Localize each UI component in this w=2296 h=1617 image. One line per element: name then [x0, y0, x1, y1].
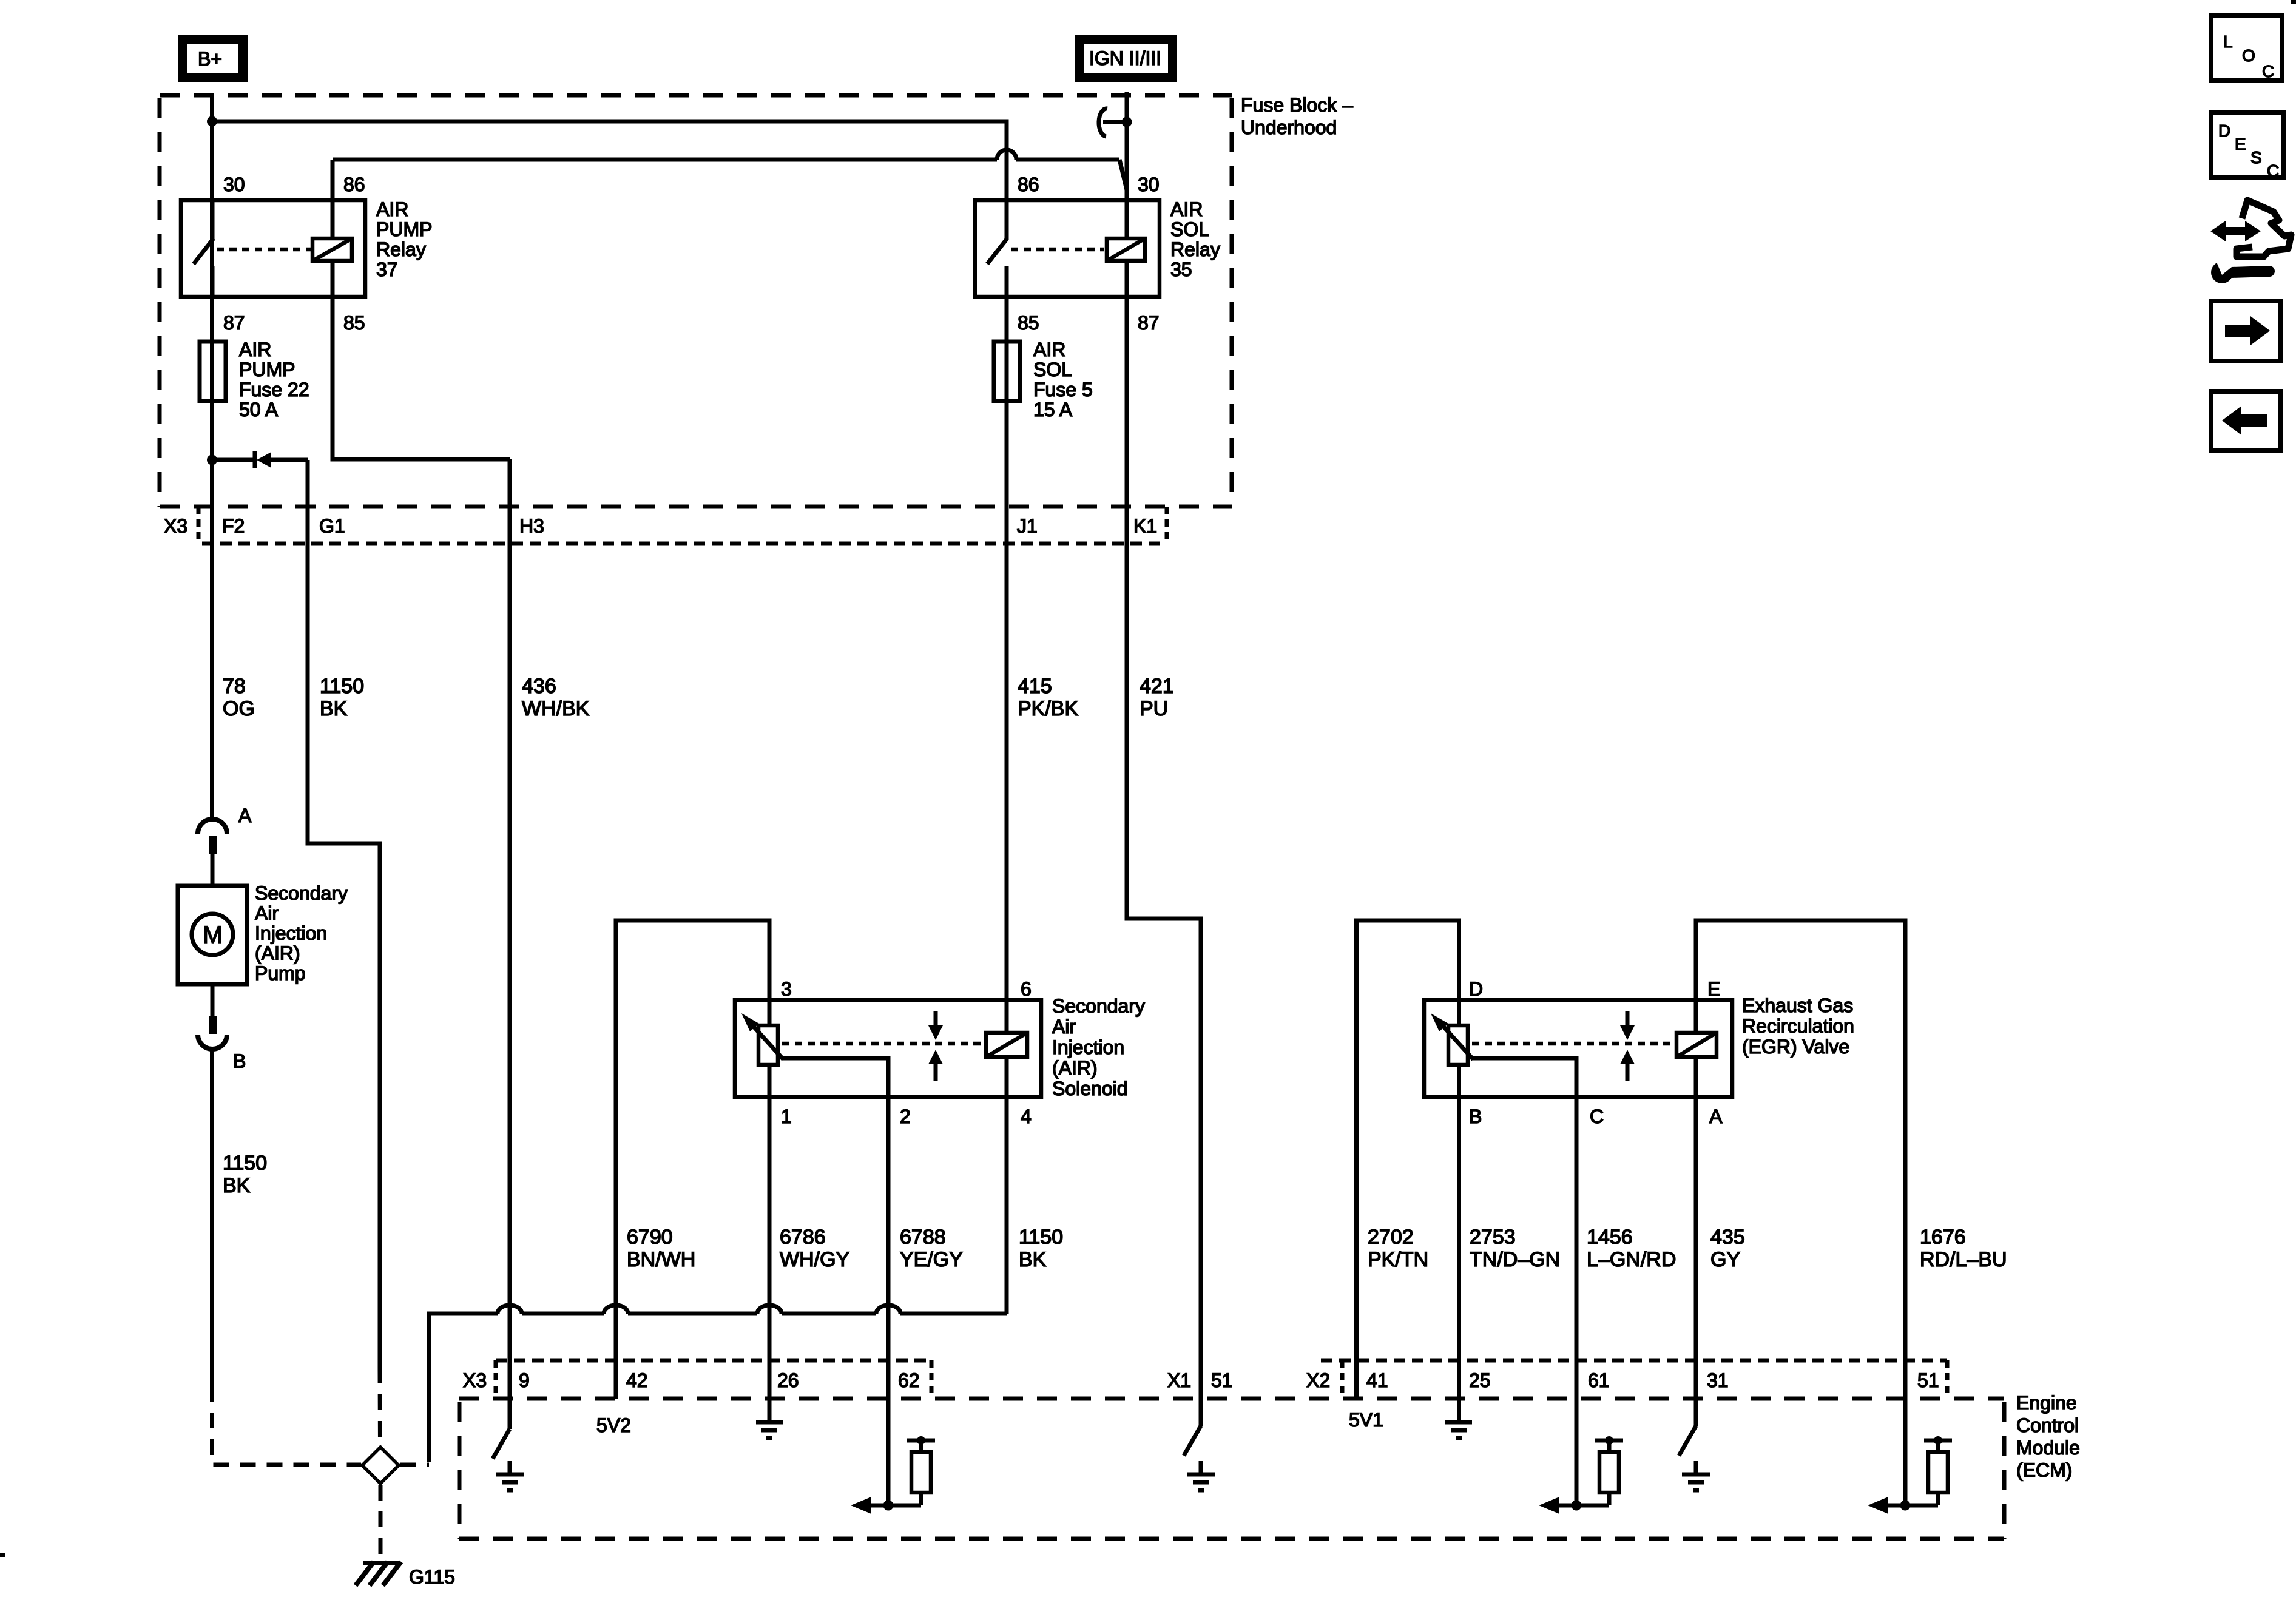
wire label 421 PU: [1140, 675, 1174, 720]
svg-text:30: 30: [1138, 174, 1160, 195]
svg-text:X3: X3: [164, 515, 187, 537]
svg-text:42: 42: [626, 1369, 648, 1391]
svg-text:415: 415: [1018, 675, 1052, 698]
svg-text:Pump: Pump: [255, 962, 306, 984]
svg-text:S: S: [2250, 148, 2262, 167]
svg-text:51: 51: [1917, 1369, 1939, 1391]
wire dashed run to splice from pump: [212, 1386, 362, 1465]
svg-text:5V2: 5V2: [596, 1414, 631, 1436]
svg-text:H3: H3: [519, 515, 544, 537]
svg-text:1456: 1456: [1587, 1226, 1633, 1249]
svg-text:(EGR) Valve: (EGR) Valve: [1742, 1036, 1849, 1058]
svg-text:6786: 6786: [780, 1226, 826, 1249]
svg-text:62: 62: [898, 1369, 920, 1391]
ECM connector row X3 dotted: [496, 1360, 931, 1396]
svg-text:B: B: [1469, 1106, 1482, 1127]
Fuse Block - Underhood dashed enclosure: [160, 95, 1232, 507]
svg-text:J1: J1: [1017, 515, 1038, 537]
diode D1 with feed to G1: [212, 451, 308, 468]
svg-text:85: 85: [1018, 312, 1039, 334]
junction dot below fuse 22: [207, 455, 217, 465]
wire solenoid wiper to pin 2: [782, 1058, 888, 1097]
svg-text:PU: PU: [1140, 697, 1168, 720]
EGR valve box Exhaust Gas Recirculation (EGR) Valve: [1424, 1000, 1732, 1097]
ECM pin 61 internal pull-up resistor and measure arrow: [1539, 1436, 1623, 1514]
icon LOC box: [2211, 16, 2282, 81]
svg-text:Secondary: Secondary: [1052, 995, 1145, 1017]
svg-text:BN/WH: BN/WH: [627, 1248, 695, 1271]
svg-text:Air: Air: [1052, 1016, 1076, 1038]
svg-text:E: E: [2235, 135, 2246, 154]
svg-text:BK: BK: [223, 1174, 251, 1197]
icon DESC box: [2211, 112, 2283, 180]
node B+ (battery feed terminal box): [183, 40, 243, 78]
svg-text:Relay: Relay: [1170, 238, 1220, 260]
wire 1150 BK pump ground lead: [210, 1049, 214, 1386]
svg-text:Fuse 22: Fuse 22: [239, 379, 309, 400]
svg-text:5V1: 5V1: [1349, 1409, 1383, 1431]
relay37 coil: [312, 238, 352, 261]
svg-text:37: 37: [376, 258, 398, 280]
wire solenoid pin 4 drop: [1005, 1057, 1009, 1314]
svg-text:2753: 2753: [1470, 1226, 1516, 1249]
wire 1150 BK from diode down through G1: [308, 460, 380, 1368]
wire solenoid pin 3 loop to ECM 42: [616, 920, 769, 1399]
wire EGR pin A to ECM 31: [1694, 1097, 1698, 1426]
svg-text:AIR: AIR: [376, 198, 408, 220]
svg-text:Air: Air: [255, 902, 279, 924]
svg-text:Fuse Block –: Fuse Block –: [1241, 94, 1353, 116]
wire label 1150 BK: [320, 675, 364, 720]
svg-text:Recirculation: Recirculation: [1742, 1015, 1854, 1037]
relay35 armature dashed link: [1011, 248, 1104, 252]
svg-text:WH/BK: WH/BK: [522, 697, 590, 720]
wire label 1150 BK (solenoid): [1019, 1226, 1063, 1271]
svg-text:Injection: Injection: [255, 922, 327, 944]
svg-text:D: D: [1469, 978, 1483, 1000]
relay K37 AIR PUMP Relay box: [181, 200, 365, 297]
wire EGR pin E loop to ECM 51: [1696, 920, 1905, 1505]
svg-text:436: 436: [522, 675, 556, 698]
EGR coil: [1676, 1033, 1717, 1057]
label Fuse Block - Underhood: [1241, 94, 1353, 138]
ECM X1-51 internal ground: [1187, 1461, 1215, 1490]
svg-text:50 A: 50 A: [239, 399, 279, 420]
svg-text:PUMP: PUMP: [376, 218, 432, 240]
svg-text:X1: X1: [1167, 1369, 1191, 1391]
label AIR PUMP Relay 37: [376, 198, 432, 280]
svg-text:(AIR): (AIR): [255, 942, 300, 964]
svg-text:30: 30: [223, 174, 245, 195]
ECM pin 62 internal pull-up resistor and measure arrow: [851, 1436, 935, 1514]
wire EGR wiper to pin C: [1472, 1058, 1576, 1097]
ECM pin 31 low-side switch: [1679, 1426, 1696, 1456]
icon forward arrow box: [2211, 301, 2281, 361]
svg-text:1: 1: [781, 1106, 792, 1127]
svg-text:Module: Module: [2016, 1437, 2080, 1459]
relay35 pin 85 internal stub: [1005, 266, 1009, 297]
svg-text:Engine: Engine: [2016, 1392, 2077, 1414]
svg-text:YE/GY: YE/GY: [900, 1248, 963, 1271]
svg-text:31: 31: [1707, 1369, 1729, 1391]
wire label 1676 RD/L-BU: [1920, 1226, 2007, 1271]
svg-text:86: 86: [1018, 174, 1039, 195]
relay37 pin 30 internal lead: [211, 200, 215, 240]
solenoid dashed actuator link: [782, 1042, 982, 1046]
wire label 1150 BK (pump ground): [223, 1152, 267, 1197]
ECM connector row X2 dotted: [1321, 1360, 1947, 1396]
svg-text:C: C: [2262, 62, 2274, 81]
wire label 6790 BN/WH: [627, 1226, 695, 1271]
svg-text:4: 4: [1021, 1106, 1032, 1127]
svg-text:9: 9: [519, 1369, 530, 1391]
fuse F22 AIR PUMP Fuse 22 50 A: [200, 342, 226, 401]
svg-text:D: D: [2218, 121, 2230, 140]
svg-text:PK/BK: PK/BK: [1018, 697, 1078, 720]
svg-text:A: A: [238, 805, 252, 826]
svg-text:3: 3: [781, 978, 792, 1000]
svg-text:1150: 1150: [320, 675, 364, 698]
relay35 coil: [1107, 238, 1145, 261]
EGR sensor wiper arrow: [1431, 1013, 1473, 1059]
svg-text:6790: 6790: [627, 1226, 673, 1249]
svg-text:6: 6: [1021, 978, 1032, 1000]
label AIR PUMP Fuse 22 50 A: [239, 339, 309, 420]
svg-text:61: 61: [1588, 1369, 1610, 1391]
svg-text:BK: BK: [320, 697, 348, 720]
svg-text:O: O: [2242, 46, 2255, 65]
svg-text:F2: F2: [222, 515, 245, 537]
icon back arrow box: [2211, 391, 2281, 451]
svg-text:L–GN/RD: L–GN/RD: [1587, 1248, 1676, 1271]
relay35 switch armature: [987, 238, 1007, 264]
ECM pin 9 internal ground: [496, 1461, 524, 1490]
solenoid coil: [986, 1033, 1027, 1057]
solenoid SAI Secondary Air Injection (AIR) Solenoid box: [735, 1000, 1041, 1097]
label Secondary Air Injection (AIR) Solenoid: [1052, 995, 1145, 1099]
wire relay35 pin85 through fuse 5 to J1 and AIR solenoid pin 6: [1005, 297, 1009, 1033]
ECM pin 51 internal pull-up resistor and measure arrow: [1868, 1436, 1952, 1514]
relay37 pin 86 internal lead: [331, 200, 335, 238]
wire A to pump: [211, 854, 215, 886]
svg-text:6788: 6788: [900, 1226, 946, 1249]
svg-text:41: 41: [1366, 1369, 1388, 1391]
wire dashed splice to ECM horizontal rail: [400, 1463, 429, 1467]
wire B+ feed to AIR SOL relay pin 86: [212, 121, 1007, 200]
wire dashed run to splice from G1 branch: [378, 1368, 383, 1446]
svg-text:Secondary: Secondary: [255, 882, 348, 904]
label AIR SOL Fuse 5 15 A: [1033, 339, 1093, 420]
svg-text:1150: 1150: [1019, 1226, 1063, 1249]
ECM X1-51 low-side switch: [1184, 1426, 1201, 1456]
ECM pin 31 internal ground: [1682, 1461, 1710, 1490]
svg-text:G115: G115: [409, 1566, 455, 1588]
svg-text:2702: 2702: [1368, 1226, 1414, 1249]
wire label 2753 TN/D-GN: [1470, 1226, 1560, 1271]
wire pump to B: [211, 984, 215, 1017]
EGR position sensor element: [1448, 1025, 1468, 1065]
fusible element curl symbol: [1099, 109, 1123, 137]
solenoid sensor wiper arrow: [741, 1013, 783, 1059]
scan artifact bottom left: [0, 1553, 5, 1557]
ground G115 chassis symbol: [356, 1562, 455, 1588]
svg-text:Solenoid: Solenoid: [1052, 1078, 1128, 1099]
svg-text:Injection: Injection: [1052, 1036, 1124, 1058]
svg-text:26: 26: [777, 1369, 799, 1391]
label AIR SOL Relay 35: [1170, 198, 1220, 280]
wire EGR pin A lead: [1694, 1057, 1698, 1097]
svg-text:OG: OG: [223, 697, 255, 720]
wire IGN II/III vertical feed: [1125, 92, 1129, 238]
svg-text:87: 87: [223, 312, 245, 334]
wire solenoid pin 1 lead below sensor: [768, 1065, 772, 1422]
wire relay37 pin86 to relay35 pin30 (coil supply rail) with hop: [333, 150, 1127, 190]
svg-text:86: 86: [343, 174, 365, 195]
splice S1 diamond: [362, 1447, 399, 1484]
svg-text:1150: 1150: [223, 1152, 267, 1175]
solenoid valve symbol (opposed arrows): [928, 1011, 943, 1081]
relay K35 AIR SOL Relay box: [975, 200, 1160, 297]
relay37 pin 87 internal stub: [211, 266, 215, 297]
wire label 435 GY: [1710, 1226, 1745, 1271]
node A (inline connector to AIR pump): [198, 805, 252, 854]
wire label 6786 WH/GY: [780, 1226, 849, 1271]
ECM pin 25 internal ground: [1445, 1422, 1472, 1438]
svg-text:25: 25: [1469, 1369, 1491, 1391]
svg-text:Exhaust Gas: Exhaust Gas: [1742, 994, 1853, 1016]
wire relay37 pin85 to H3: [333, 297, 510, 459]
wire label 1456 L-GN/RD: [1587, 1226, 1676, 1271]
svg-text:(AIR): (AIR): [1052, 1057, 1098, 1079]
wire solenoid pin 2 to ECM 62: [886, 1097, 891, 1505]
svg-text:A: A: [1709, 1106, 1723, 1127]
svg-text:B+: B+: [198, 48, 222, 70]
svg-text:X3: X3: [463, 1369, 487, 1391]
svg-text:K1: K1: [1133, 515, 1157, 537]
svg-text:SOL: SOL: [1170, 218, 1209, 240]
fuse block bottom connector row X3: [160, 507, 1232, 544]
svg-text:421: 421: [1140, 675, 1174, 698]
wire dashed splice to G115: [379, 1485, 383, 1561]
EGR dashed actuator link: [1472, 1042, 1670, 1046]
wire EGR pin E lead: [1694, 1000, 1698, 1033]
svg-text:2: 2: [900, 1106, 911, 1127]
svg-text:AIR: AIR: [239, 339, 271, 360]
relay35 pin 87 internal lead: [1125, 261, 1129, 297]
svg-text:M: M: [203, 922, 223, 948]
wire label 78 OG: [223, 675, 255, 720]
svg-text:85: 85: [343, 312, 365, 334]
icon hand with double arrow and wrench: [2210, 200, 2291, 283]
label Secondary Air Injection (AIR) Pump: [255, 882, 348, 984]
svg-text:TN/D–GN: TN/D–GN: [1470, 1248, 1560, 1271]
junction dot at B+ feed split: [207, 116, 217, 127]
wire label 436 WH/BK: [522, 675, 590, 720]
wire EGR pin D loop to ECM 41: [1357, 920, 1459, 1399]
label Engine Control Module (ECM): [2016, 1392, 2080, 1481]
wire relay37 pin 86 riser: [331, 160, 335, 200]
relay37 armature dashed link: [217, 248, 311, 252]
relay37 pin 85 internal lead: [331, 261, 335, 297]
svg-text:SOL: SOL: [1033, 359, 1072, 380]
wire EGR pin C to ECM 61: [1575, 1097, 1579, 1505]
svg-text:(ECM): (ECM): [2016, 1459, 2072, 1481]
svg-text:X2: X2: [1306, 1369, 1330, 1391]
motor M1 Secondary Air Injection (AIR) Pump: [178, 886, 247, 984]
ECM dashed enclosure: [459, 1399, 2004, 1539]
wire label 6788 YE/GY: [900, 1226, 963, 1271]
wire relay35 pin87 to K1 down with jog to X1-51: [1127, 297, 1201, 1426]
svg-text:51: 51: [1211, 1369, 1233, 1391]
relay37 switch armature: [194, 238, 214, 264]
svg-text:Underhood: Underhood: [1241, 116, 1337, 138]
scan artifact top right: [2291, 0, 2296, 4]
svg-text:AIR: AIR: [1033, 339, 1065, 360]
wire label 2702 PK/TN: [1368, 1226, 1428, 1271]
svg-text:435: 435: [1710, 1226, 1745, 1249]
svg-text:Fuse 5: Fuse 5: [1033, 379, 1093, 400]
label Exhaust Gas Recirculation (EGR) Valve: [1742, 994, 1854, 1058]
svg-text:78: 78: [223, 675, 246, 698]
node B (inline connector from AIR pump): [198, 1016, 246, 1072]
junction dot at IGN feed: [1122, 117, 1132, 127]
wire 436 WH/BK H3 down to ECM pin 9: [508, 459, 512, 1429]
svg-text:AIR: AIR: [1170, 198, 1203, 220]
wire 1150 BK horizontal rail to solenoid pin 4 (with hops): [429, 1305, 1007, 1462]
svg-text:Control: Control: [2016, 1414, 2079, 1436]
wire EGR pin B lead below sensor: [1457, 1065, 1461, 1422]
svg-text:WH/GY: WH/GY: [780, 1248, 849, 1271]
svg-text:L: L: [2223, 32, 2233, 51]
svg-text:BK: BK: [1019, 1248, 1047, 1271]
solenoid position sensor element: [758, 1025, 778, 1065]
EGR valve symbol (opposed arrows): [1620, 1011, 1635, 1081]
svg-text:Relay: Relay: [376, 238, 426, 260]
node IGN II/III (ignition feed terminal box): [1080, 39, 1173, 78]
svg-text:G1: G1: [319, 515, 345, 537]
svg-text:35: 35: [1170, 258, 1192, 280]
fuse F5 AIR SOL Fuse 5 15 A: [994, 342, 1020, 401]
svg-text:87: 87: [1138, 312, 1160, 334]
svg-text:15 A: 15 A: [1033, 399, 1073, 420]
svg-text:B: B: [233, 1050, 246, 1072]
svg-text:C: C: [2267, 161, 2279, 180]
svg-text:PK/TN: PK/TN: [1368, 1248, 1428, 1271]
wire B+ vertical feed (78 OG branch trunk): [210, 93, 214, 819]
svg-text:PUMP: PUMP: [239, 359, 295, 380]
ECM pin 9 low-side switch: [493, 1429, 510, 1459]
svg-text:RD/L–BU: RD/L–BU: [1920, 1248, 2007, 1271]
svg-text:1676: 1676: [1920, 1226, 1966, 1249]
wire label 415 PK/BK: [1018, 675, 1078, 720]
relay35 pin 86 internal lead: [1005, 200, 1009, 240]
svg-text:C: C: [1590, 1106, 1604, 1127]
svg-text:IGN II/III: IGN II/III: [1089, 47, 1161, 69]
svg-text:E: E: [1707, 978, 1720, 1000]
svg-text:GY: GY: [1710, 1248, 1740, 1271]
ECM pin 26 internal ground: [756, 1422, 783, 1438]
